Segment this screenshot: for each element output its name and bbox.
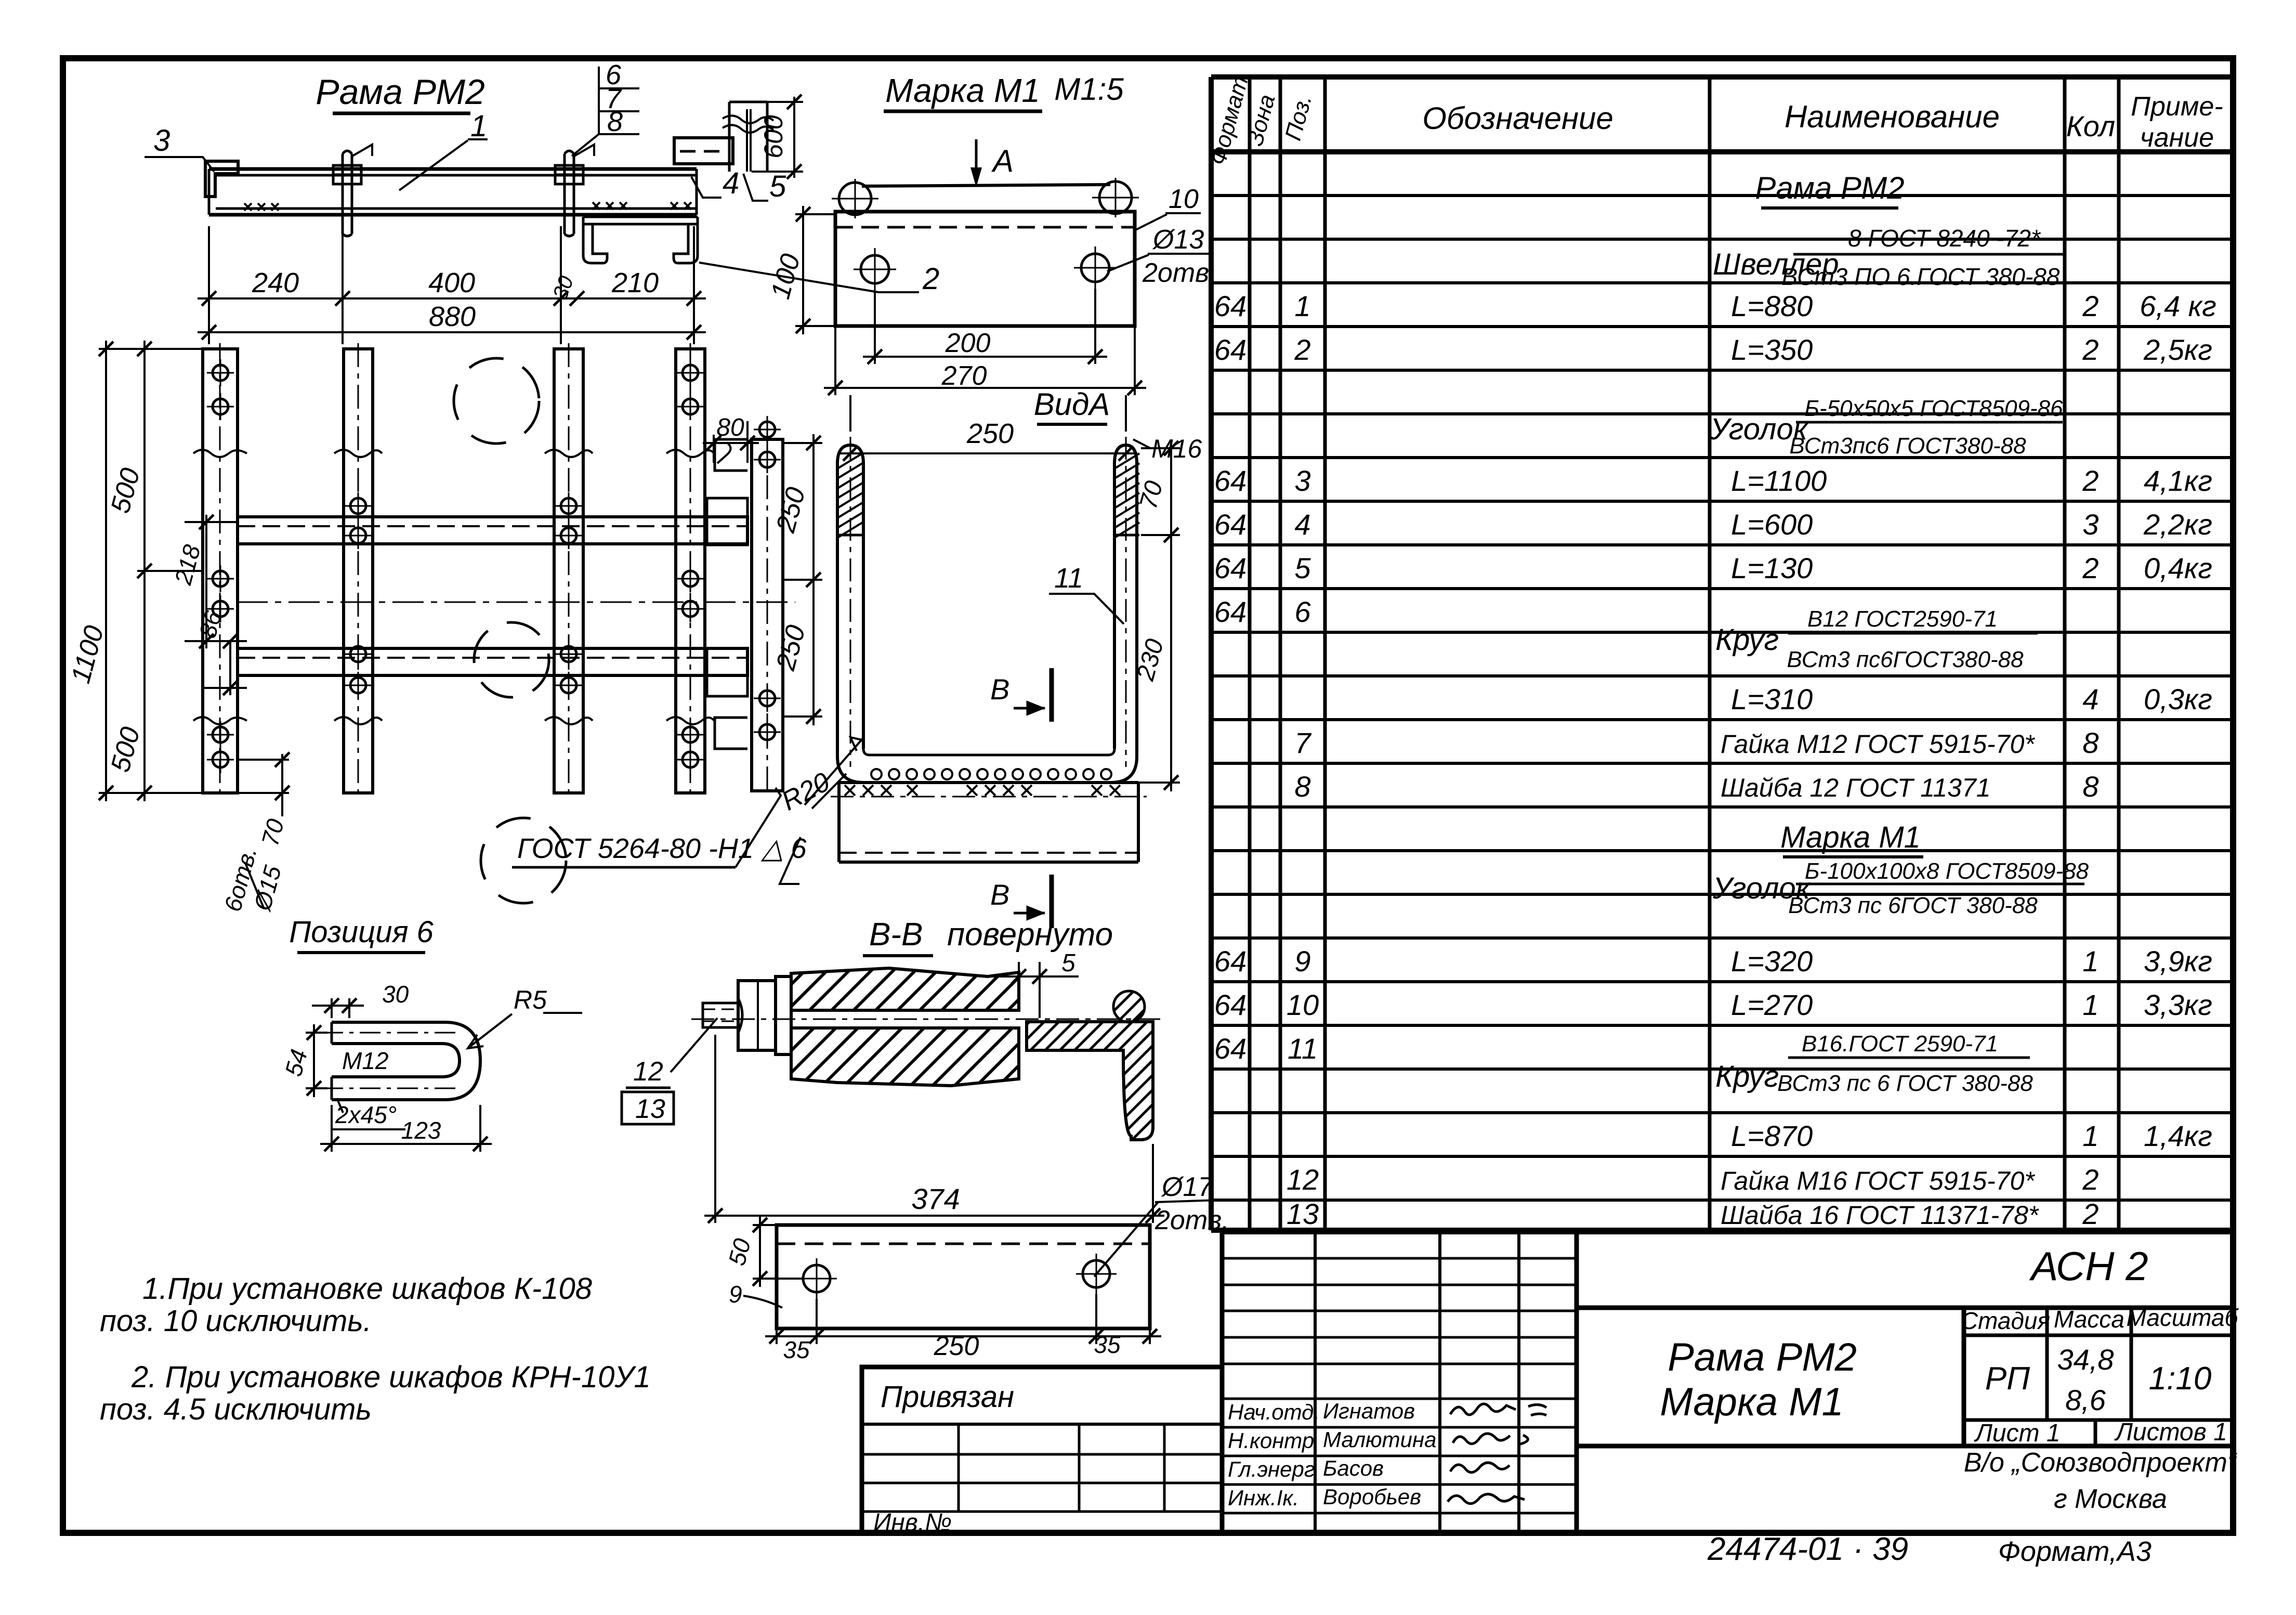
svg-text:2,5кг: 2,5кг: [2143, 333, 2212, 366]
svg-text:3,3кг: 3,3кг: [2144, 988, 2212, 1021]
svg-text:М1:5: М1:5: [1054, 72, 1124, 107]
flat U-hook поз.6: [322, 1022, 480, 1100]
svg-text:поз. 4.5 исключить: поз. 4.5 исключить: [100, 1392, 372, 1426]
plan dim 80 (top right): [703, 421, 759, 463]
svg-text:Б-50х50х5 ГОСТ8509-86: Б-50х50х5 ГОСТ8509-86: [1804, 396, 2063, 421]
labels 10, Ø13 2отв: [1142, 184, 1209, 288]
svg-text:L=350: L=350: [1731, 333, 1813, 366]
svg-text:2: 2: [2082, 1197, 2098, 1230]
svg-text:10: 10: [1287, 988, 1319, 1021]
hatched channel block (lower): [791, 1028, 1019, 1086]
svg-text:1: 1: [2082, 945, 2098, 978]
dim 54: [306, 1024, 327, 1097]
svg-text:600: 600: [759, 115, 788, 159]
svg-text:880: 880: [429, 301, 476, 332]
plan mounting circles (dashed): [454, 358, 566, 903]
Марка М1 plate holes Ø13: [854, 246, 1117, 291]
svg-text:8: 8: [2082, 726, 2098, 759]
svg-text:Басов: Басов: [1323, 1456, 1384, 1480]
svg-text:11: 11: [1288, 1032, 1318, 1065]
svg-text:Гл.энерг: Гл.энерг: [1228, 1457, 1315, 1481]
svg-text:64: 64: [1214, 333, 1247, 366]
svg-text:7: 7: [1294, 726, 1311, 759]
svg-text:270: 270: [941, 361, 987, 391]
svg-text:Гайка М16 ГОСТ 5915-70*: Гайка М16 ГОСТ 5915-70*: [1721, 1166, 2035, 1195]
svg-text:L=320: L=320: [1731, 945, 1813, 978]
U-bolt поз.11 (Вид А): [837, 437, 1137, 783]
svg-text:64: 64: [1214, 988, 1247, 1021]
svg-text:М12: М12: [342, 1047, 388, 1074]
beam поз.1 (швеллер 880): [209, 169, 697, 215]
svg-text:1,4кг: 1,4кг: [2144, 1119, 2212, 1152]
dim 600 (vertical, hook): [729, 97, 803, 178]
svg-text:10: 10: [1169, 184, 1199, 214]
svg-text:Марка М1: Марка М1: [1780, 820, 1921, 854]
svg-text:2: 2: [922, 262, 939, 296]
svg-text:L=130: L=130: [1731, 552, 1813, 584]
svg-text:Наименование: Наименование: [1785, 99, 2000, 134]
weld bead dots: [871, 769, 1111, 779]
svg-text:200: 200: [945, 328, 991, 358]
svg-text:Ø13: Ø13: [1152, 225, 1204, 255]
svg-text:Марка М1: Марка М1: [1660, 1380, 1844, 1424]
svg-text:1: 1: [2082, 988, 2098, 1021]
svg-text:АСН 2: АСН 2: [2029, 1243, 2148, 1289]
svg-text:80: 80: [716, 414, 744, 441]
svg-text:8,6: 8,6: [2065, 1384, 2106, 1416]
dims 50 / 9: [753, 1217, 803, 1287]
svg-text:Рама РМ2: Рама РМ2: [1668, 1335, 1857, 1379]
bolt shaft: [691, 1010, 1164, 1028]
plan dims 250/250 (right): [783, 434, 822, 725]
svg-text:123: 123: [401, 1117, 441, 1144]
svg-text:чание: чание: [2140, 123, 2214, 153]
dims 70 / 230 (right): [1138, 439, 1180, 791]
svg-text:3,9кг: 3,9кг: [2144, 945, 2212, 978]
svg-text:2: 2: [1294, 333, 1310, 366]
svg-text:Ø17: Ø17: [1161, 1172, 1214, 1202]
Марка М1 dims 100 / 200 / 270: [795, 206, 1146, 395]
table header labels: [1205, 68, 2223, 168]
svg-text:г Москва: г Москва: [2054, 1484, 2167, 1514]
angle поз.9/10 cross-section (hatched L): [1027, 1022, 1153, 1140]
svg-text:35: 35: [1094, 1331, 1121, 1358]
plan dim 70 and 6отв Ø15: [239, 754, 289, 816]
svg-text:Приме-: Приме-: [2131, 92, 2223, 122]
svg-text:34,8: 34,8: [2057, 1343, 2114, 1376]
svg-text:Формат,А3: Формат,А3: [1998, 1536, 2151, 1567]
svg-text:L=310: L=310: [1731, 683, 1813, 715]
svg-text:Воробьев: Воробьев: [1323, 1484, 1421, 1509]
plan view of frame: [193, 343, 714, 799]
U-bolt clamp поз.6/7/8 (left): [333, 145, 372, 236]
dim 374: [704, 1035, 1164, 1223]
svg-text:Н.контр: Н.контр: [1228, 1428, 1314, 1453]
svg-text:повернуто: повернуто: [947, 917, 1113, 953]
svg-text:Позиция 6: Позиция 6: [289, 915, 434, 949]
svg-text:Круг: Круг: [1715, 1060, 1779, 1093]
hatched channel block (upper): [791, 968, 1019, 1010]
svg-text:0,3кг: 0,3кг: [2144, 683, 2212, 715]
weld marks xxx on beam: [244, 202, 691, 211]
svg-text:В/о „Союзводпроект“: В/о „Союзводпроект“: [1964, 1448, 2238, 1478]
svg-text:ВСт3 пс6ГОСТ380-88: ВСт3 пс6ГОСТ380-88: [1787, 647, 2024, 672]
svg-text:5: 5: [1294, 552, 1311, 584]
svg-text:ВСт3 пс 6ГОСТ 380-88: ВСт3 пс 6ГОСТ 380-88: [1788, 893, 2038, 918]
svg-text:ГОСТ 5264-80 -Н1 △ 6: ГОСТ 5264-80 -Н1 △ 6: [517, 833, 807, 864]
svg-text:12: 12: [633, 1057, 663, 1087]
svg-text:64: 64: [1214, 552, 1247, 584]
leader stack labels 6/7/8: [606, 59, 623, 137]
svg-text:64: 64: [1214, 290, 1247, 322]
section marks В-В: [1014, 668, 1052, 928]
svg-text:3: 3: [1294, 464, 1310, 497]
U-bolt clamp поз.6/7/8 (right): [555, 145, 594, 236]
svg-text:3: 3: [2082, 508, 2098, 541]
dim 250 (Вид А top): [839, 395, 1137, 453]
svg-text:1: 1: [2082, 1119, 2098, 1152]
svg-text:Рама РМ2: Рама РМ2: [1755, 171, 1904, 205]
title block Стадия/Масса/Масштаб: [1961, 1304, 2239, 1514]
plan view horizontal centerline: [237, 602, 795, 603]
svg-text:Малютина: Малютина: [1323, 1427, 1436, 1452]
rod cross-section (поз.11) on angle: [1113, 991, 1145, 1022]
Привязан box: [862, 1367, 1222, 1533]
svg-text:1: 1: [1294, 290, 1310, 322]
dims 240/400/30/210 under beam: [198, 226, 706, 344]
svg-text:2: 2: [2082, 552, 2098, 584]
svg-text:Листов 1: Листов 1: [2114, 1418, 2227, 1446]
svg-text:поз. 10 исключить.: поз. 10 исключить.: [100, 1304, 372, 1338]
svg-text:9: 9: [1294, 945, 1310, 978]
svg-text:Лист 1: Лист 1: [1974, 1419, 2061, 1447]
svg-text:Б-100х100х8 ГОСТ8509-88: Б-100х100х8 ГОСТ8509-88: [1805, 858, 2089, 884]
svg-text:РП: РП: [1985, 1361, 2030, 1397]
parts table grid: [1211, 77, 2233, 1230]
hook поз.5 (Марка М1 leg, broken view) with plate: [674, 102, 773, 172]
svg-text:Шайба 12 ГОСТ 11371: Шайба 12 ГОСТ 11371: [1721, 773, 1991, 802]
svg-text:11: 11: [1054, 563, 1083, 594]
svg-text:64: 64: [1214, 595, 1247, 628]
svg-text:1:10: 1:10: [2149, 1361, 2212, 1397]
svg-text:L=270: L=270: [1731, 988, 1813, 1021]
signature grid: [1222, 1232, 1577, 1533]
svg-text:240: 240: [252, 267, 299, 298]
svg-text:35: 35: [783, 1336, 810, 1363]
svg-text:2: 2: [2082, 464, 2098, 497]
svg-text:2: 2: [2082, 333, 2098, 366]
angle поз.3 (left end bracket): [205, 161, 238, 197]
svg-text:4: 4: [723, 166, 739, 200]
svg-text:2,2кг: 2,2кг: [2143, 508, 2212, 541]
svg-text:13: 13: [1287, 1197, 1319, 1230]
svg-text:6: 6: [1294, 595, 1311, 628]
svg-text:2х45°: 2х45°: [335, 1101, 397, 1128]
svg-text:64: 64: [1214, 464, 1247, 497]
base angle под U-bolt: [831, 783, 1147, 862]
dims 35 / 250 / 35: [765, 1294, 1161, 1344]
svg-text:ВидА: ВидА: [1034, 387, 1110, 422]
svg-text:L=1100: L=1100: [1731, 464, 1827, 497]
svg-text:Марка М1: Марка М1: [885, 72, 1040, 109]
plan right assembly (Марка М1): [707, 434, 783, 797]
svg-text:Гайка М12 ГОСТ 5915-70*: Гайка М12 ГОСТ 5915-70*: [1721, 730, 2035, 759]
svg-text:Инв.№: Инв.№: [873, 1509, 952, 1536]
svg-text:0,4кг: 0,4кг: [2144, 552, 2212, 584]
svg-text:2отв: 2отв: [1142, 258, 1209, 288]
svg-text:2отв.: 2отв.: [1154, 1205, 1229, 1235]
svg-text:2: 2: [2082, 1163, 2098, 1196]
svg-text:8: 8: [2082, 770, 2098, 803]
svg-text:ВСт3 ПО 6.ГОСТ 380-88: ВСт3 ПО 6.ГОСТ 380-88: [1782, 263, 2060, 290]
svg-text:64: 64: [1214, 508, 1247, 541]
svg-text:8 ГОСТ 8240 -72*: 8 ГОСТ 8240 -72*: [1848, 225, 2041, 252]
svg-text:В16.ГОСТ 2590-71: В16.ГОСТ 2590-71: [1802, 1031, 1998, 1057]
svg-text:Инж.Iк.: Инж.Iк.: [1228, 1486, 1299, 1510]
plan dims left: 1100, 500x2: [99, 341, 203, 801]
svg-text:5: 5: [769, 170, 786, 203]
svg-text:400: 400: [428, 267, 475, 298]
svg-text:210: 210: [611, 267, 659, 298]
svg-text:R5: R5: [514, 985, 547, 1014]
bolt поз.12/13 (nut and washer): [703, 976, 791, 1054]
dim 5 (plate thickness): [985, 962, 1079, 1018]
plan holes: [207, 359, 781, 773]
svg-text:1: 1: [470, 109, 487, 143]
svg-text:В12 ГОСТ2590-71: В12 ГОСТ2590-71: [1807, 606, 1998, 632]
svg-text:ВСт3 пс 6 ГОСТ 380-88: ВСт3 пс 6 ГОСТ 380-88: [1777, 1071, 2033, 1096]
svg-text:Кол: Кол: [2066, 110, 2116, 142]
svg-text:4,1кг: 4,1кг: [2144, 464, 2212, 497]
svg-text:Игнатов: Игнатов: [1323, 1399, 1415, 1423]
svg-text:В-В: В-В: [869, 917, 923, 953]
Марка М1: rod поз.11 (top, with rounded ends): [832, 178, 1139, 218]
plan dims 218 / 86: [185, 515, 247, 695]
svg-text:ВСт3пс6 ГОСТ380-88: ВСт3пс6 ГОСТ380-88: [1789, 433, 2026, 459]
svg-text:4: 4: [1294, 508, 1310, 541]
thread hatching on legs: [838, 453, 1139, 537]
svg-text:9: 9: [729, 1281, 742, 1308]
svg-text:3: 3: [153, 124, 170, 158]
svg-text:Шайба 16 ГОСТ 11371-78*: Шайба 16 ГОСТ 11371-78*: [1721, 1201, 2039, 1230]
svg-text:2: 2: [2082, 290, 2098, 322]
svg-text:L=880: L=880: [1731, 290, 1813, 322]
svg-text:6,4 кг: 6,4 кг: [2140, 290, 2216, 322]
svg-text:5: 5: [1061, 949, 1075, 977]
svg-text:L=870: L=870: [1731, 1119, 1813, 1152]
svg-text:4: 4: [2082, 683, 2098, 715]
title block: [1222, 1232, 2233, 1533]
svg-text:Стадия: Стадия: [1961, 1307, 2050, 1334]
signatures (handwritten squiggles): [1448, 1404, 1546, 1504]
svg-text:В: В: [990, 878, 1009, 911]
plan rails (швеллеры поз.1): [238, 517, 747, 675]
Марка М1: plate поз.10: [835, 212, 1135, 326]
svg-text:24474-01 · 39: 24474-01 · 39: [1707, 1531, 1908, 1567]
svg-text:В: В: [990, 673, 1009, 706]
svg-text:12: 12: [1287, 1163, 1319, 1196]
weld xxx marks under plate line: [845, 785, 1120, 796]
svg-text:374: 374: [911, 1182, 960, 1215]
svg-text:250: 250: [934, 1331, 979, 1361]
svg-text:30: 30: [382, 981, 409, 1008]
svg-text:Рама РМ2: Рама РМ2: [316, 72, 485, 112]
svg-text:Масса: Масса: [2054, 1306, 2124, 1333]
svg-text:Обозначение: Обозначение: [1422, 101, 1613, 136]
dim 880: [198, 331, 706, 333]
svg-text:64: 64: [1214, 1032, 1247, 1065]
svg-text:Круг: Круг: [1715, 623, 1779, 657]
bottom plate поз.10 with Ø17 holes: [777, 1225, 1150, 1329]
svg-text:А: А: [991, 144, 1014, 178]
signature rows text: [1228, 1399, 1436, 1510]
svg-text:64: 64: [1214, 945, 1247, 978]
svg-text:13: 13: [635, 1094, 665, 1124]
dim 30: [312, 998, 364, 1018]
svg-text:8: 8: [1294, 770, 1310, 803]
svg-text:L=600: L=600: [1731, 508, 1813, 541]
notes: [100, 1272, 651, 1426]
svg-text:Масштаб: Масштаб: [2127, 1304, 2239, 1331]
svg-text:2. При установке шкафов КРН-1: 2. При установке шкафов КРН-10У1: [131, 1360, 651, 1394]
channel поз.2 (C-section below beam): [583, 217, 698, 263]
svg-text:Нач.отд.: Нач.отд.: [1228, 1400, 1320, 1424]
dim 123: [320, 1105, 492, 1152]
svg-text:1.При установке шкафов К-108: 1.При установке шкафов К-108: [142, 1272, 592, 1306]
svg-text:250: 250: [966, 418, 1014, 449]
svg-text:Привязан: Привязан: [881, 1380, 1014, 1414]
